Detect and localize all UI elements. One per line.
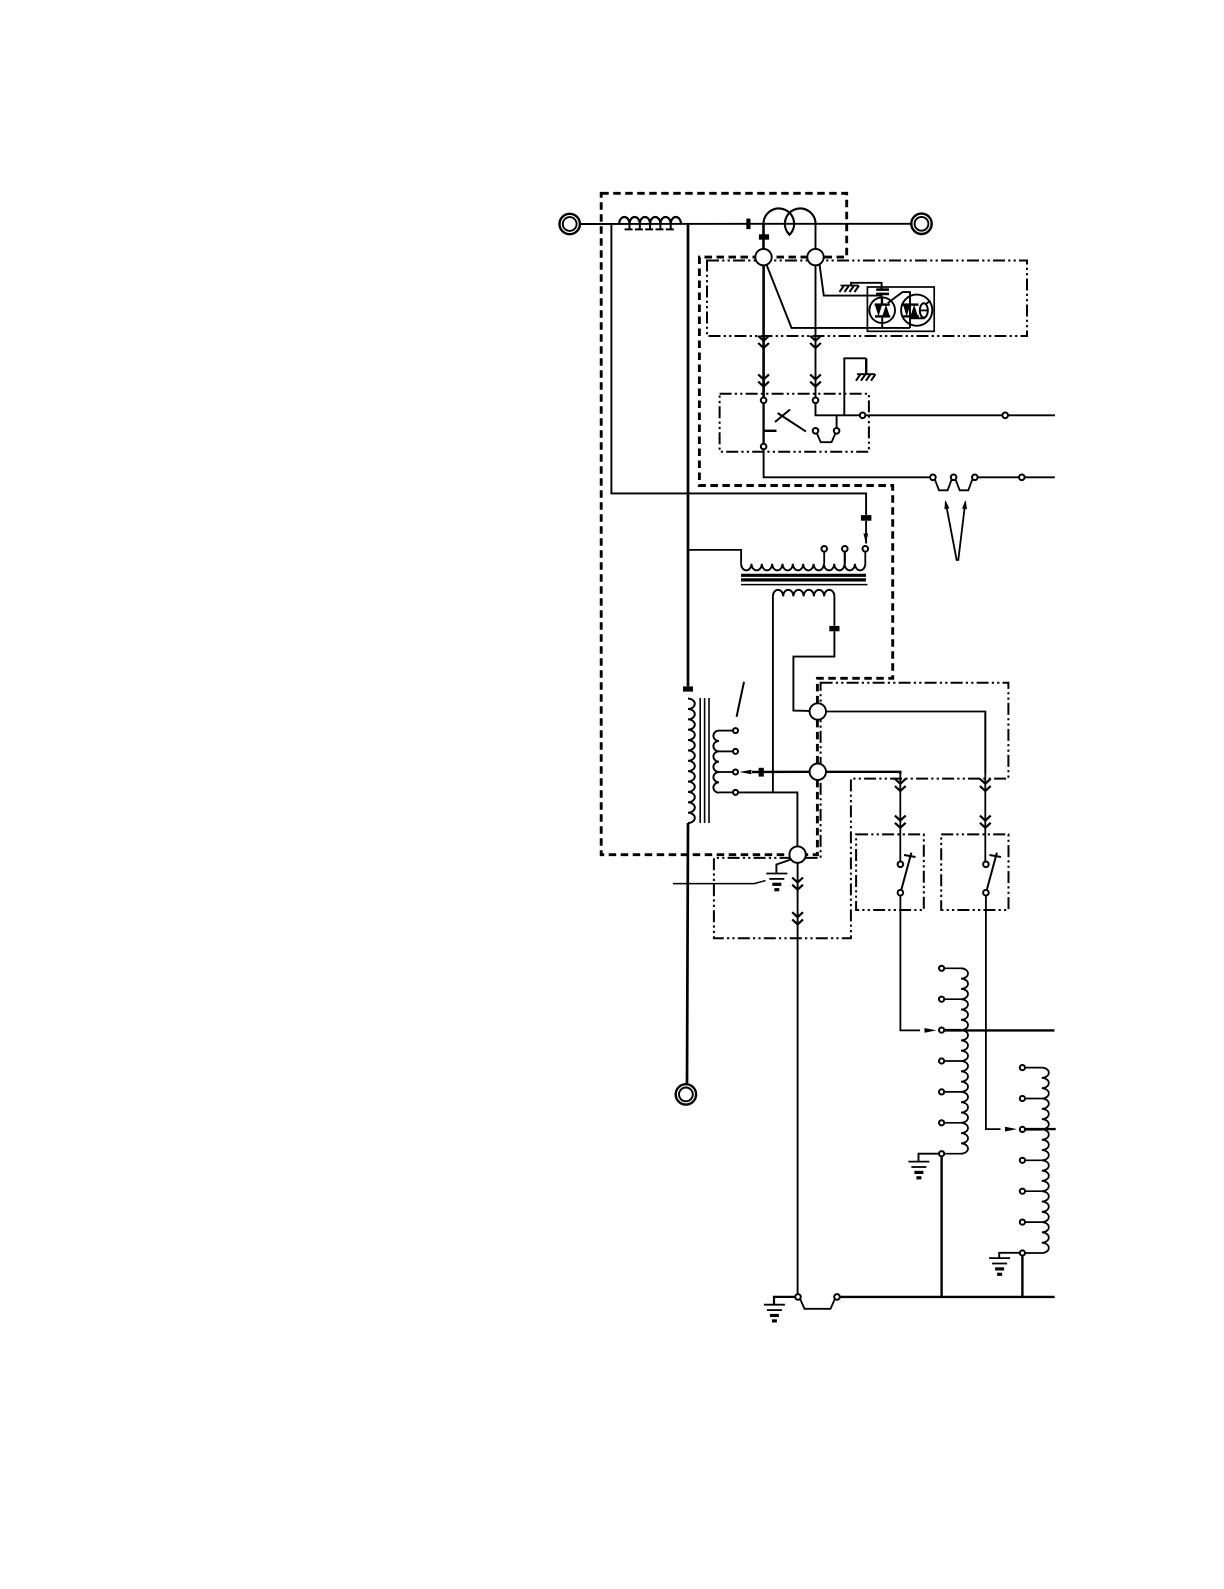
tap stub T2-2 (719, 750, 733, 752)
wire T1 sec right lead (833, 596, 835, 625)
chassis ground G1 (840, 286, 860, 293)
jumper U-link K1 (817, 433, 836, 442)
wire to right end (1025, 476, 1055, 478)
link P1-1/2 (935, 479, 952, 490)
wire S2 entry (984, 834, 986, 861)
tap stub L2-5 (944, 1091, 961, 1093)
contact S1-1 (898, 862, 904, 868)
pin P2-2 (834, 1294, 840, 1300)
tap stub L3-1 (1025, 1067, 1042, 1069)
selector wiper T2 (737, 682, 744, 717)
wire chassis gnd to C1 top (851, 283, 882, 289)
tap T2-3 (733, 770, 738, 775)
mating arrows P1 (944, 500, 967, 561)
enclosure control board B1 (dash-dot) (707, 261, 1027, 337)
switch box S2 (dash-dot) (941, 834, 1008, 910)
arrow S2 to L3 tap (1005, 1127, 1017, 1132)
wire T1 sec left lead (772, 596, 774, 792)
arrow pair S1 drop (b) (895, 816, 906, 828)
link P2 (800, 1299, 835, 1309)
wire S1 exit (900, 896, 920, 1031)
tap stub L3-2 (1025, 1098, 1042, 1100)
tap L2-4 (939, 1058, 944, 1063)
node N2 (807, 249, 823, 265)
terminal TB1 (line input left) (560, 214, 580, 234)
tap L2-6 (939, 1120, 944, 1125)
pin K1-1 (761, 398, 767, 404)
splice S3 on output wire (1002, 413, 1008, 419)
wire Q1-Q2 link (888, 292, 910, 328)
wire CT1 left drop (762, 224, 765, 249)
capacitor C1 (876, 290, 889, 305)
inductor L1 (619, 217, 681, 229)
arrow pair on N2 drop (b) (810, 374, 821, 386)
leader line (673, 881, 766, 884)
tap stub T1-a (823, 552, 825, 564)
tap stub L2-3 (944, 1029, 961, 1031)
tap T1-a (821, 546, 827, 552)
connector J6 (759, 768, 764, 777)
wire N1 to triac return (767, 265, 911, 328)
wire K1 out right (865, 414, 1005, 416)
transformer T2 secondary winding (713, 731, 719, 793)
wire K1 left through (762, 403, 764, 444)
connector J5 (683, 686, 693, 691)
tap L3-6 (1020, 1220, 1025, 1225)
tap stub T2-4 (719, 791, 733, 793)
enclosure output section (dash-dot) (714, 683, 1009, 939)
contact S2-1 (983, 862, 989, 868)
wire CT1 right drop (815, 224, 817, 249)
contact S2-2 (983, 890, 989, 896)
connector J2 (on CT left drop) (759, 234, 769, 239)
transformer T1 primary winding (741, 564, 865, 571)
triac Q2 (with thermal sensor) (901, 295, 932, 326)
wire K1 right net (816, 403, 860, 415)
wire L2 tap3 bus right (944, 1029, 1054, 1031)
switch blade K1 (775, 410, 806, 432)
arrow pair S2 drop (a) (980, 779, 991, 791)
wire N2 to C1 (gate feed) (820, 264, 882, 295)
connector J3 (861, 515, 872, 521)
terminal TB2 (line input right) (911, 214, 931, 234)
pin K1-3 (761, 444, 767, 450)
tap T1-b (842, 546, 848, 552)
tap L2-7 (939, 1151, 944, 1156)
connector J1 (inline on main line) (746, 219, 750, 230)
node N3 (810, 703, 826, 719)
pin P2-1 (795, 1294, 801, 1300)
node N1 (755, 249, 771, 265)
module box U1 (triac assembly) (867, 287, 934, 331)
triac Q1 (869, 297, 895, 327)
wire main line L (580, 223, 748, 225)
tap L3-5 (1020, 1189, 1025, 1194)
wire L3 bottom down (1021, 1256, 1023, 1297)
wire gnd branch up (844, 358, 866, 415)
tap stub T1-c (864, 552, 866, 564)
wire T1 primary feed (688, 550, 741, 564)
wire P1-3 right (978, 476, 1019, 478)
node N4 (810, 764, 826, 780)
current transformer CT1 loops (763, 208, 815, 234)
wire N4 to S1 feed (826, 772, 900, 774)
tap stub L3-5 (1025, 1190, 1042, 1192)
chassis ground G2 (856, 374, 876, 381)
wire P2-1 to earth (774, 1297, 795, 1304)
pin P1-1 (930, 475, 936, 481)
wire Q2 bottom bar (910, 317, 925, 319)
tap stub T2-3 (719, 771, 733, 773)
wire main line R (748, 223, 911, 225)
tap stub L3-6 (1025, 1221, 1042, 1223)
wire T2 tap-4 bus (738, 792, 797, 846)
arrow into T2 tap-3 (739, 770, 751, 774)
arrow pair S2 drop (b) (980, 816, 991, 828)
enclosure main unit (dashed) (601, 193, 893, 854)
tap stub L2-2 (944, 998, 961, 1000)
tap L3-1 (1020, 1065, 1025, 1070)
contact stub K1 (764, 430, 777, 432)
wire J3 to T1 tap (865, 521, 867, 544)
wire L2 bottom down (940, 1157, 942, 1297)
tap stub L3-3 (1025, 1128, 1042, 1130)
tap L3-7 (1020, 1250, 1025, 1255)
tap stub L3-7 (1025, 1252, 1042, 1254)
link P1-2/3 (956, 479, 973, 490)
arrow pair S1 drop (a) (895, 779, 906, 791)
tap T2-2 (733, 749, 738, 754)
tap L2-2 (939, 997, 944, 1002)
tap L3-3 (1020, 1127, 1025, 1132)
tap stub L3-4 (1025, 1159, 1042, 1161)
switch box S1 (dash-dot) (856, 834, 924, 910)
connector J4 (829, 626, 839, 631)
wire K1-3 down and right (764, 449, 931, 477)
tap L2-1 (939, 966, 944, 971)
pin P1-2 (951, 475, 957, 481)
arrow pair on N1 drop (b) (758, 374, 769, 386)
arrow into T1 tap c (863, 534, 868, 544)
transformer T1 core (741, 575, 868, 584)
tap T1-c (863, 546, 869, 552)
transformer T1 secondary winding (773, 590, 835, 597)
wire main bus down (heavy) (687, 224, 690, 686)
pin P1-3 (972, 475, 978, 481)
tap stub L2-7 (944, 1153, 961, 1155)
wire S1 entry (899, 834, 901, 861)
earth ground G3 (766, 874, 787, 890)
node N5 (neutral star) (789, 846, 805, 862)
wire S2 exit (986, 896, 1001, 1130)
wire S1 drop (899, 772, 901, 835)
bus bottom (heavy) (840, 1296, 1055, 1298)
earth ground G4 (908, 1162, 929, 1178)
tap L2-5 (939, 1089, 944, 1094)
earth ground G5 (989, 1258, 1010, 1274)
inductor L2 winding (961, 968, 968, 1153)
wire L3 bottom to earth (999, 1253, 1019, 1258)
wire T2 primary bottom lead (687, 823, 688, 1084)
earth ground G6 (764, 1305, 785, 1321)
arrow pair on N1 drop (a) (758, 336, 769, 348)
wire output right end (1008, 414, 1055, 416)
wire N5 down (to bottom link) (797, 863, 799, 1294)
wire N1 down to relay K1 (762, 265, 765, 400)
wire N3 to S2 feed (826, 712, 985, 775)
contact S1-2 (898, 890, 904, 896)
switch blade S1 (901, 853, 915, 891)
arrow pair N5 drop (a) (792, 878, 803, 890)
transformer T2 core (700, 698, 709, 823)
wire N2 down to relay K1 (815, 265, 817, 400)
arrow S1 to L2 tap (925, 1028, 937, 1033)
tap T2-4 (733, 790, 738, 795)
tap T2-1 (733, 728, 738, 733)
wire T2 tap-3 to N4 (752, 771, 810, 774)
tap stub L2-1 (944, 967, 961, 969)
relay box K1 (dash-dot) (720, 394, 869, 452)
terminal TB3 (output) (676, 1084, 696, 1104)
tap stub T1-b (844, 552, 846, 564)
contact K1-b (834, 428, 840, 434)
tap stub L2-6 (944, 1122, 961, 1124)
pin K1-4 (860, 413, 866, 419)
arrow pair on N2 drop (a) (810, 336, 821, 348)
inductor L3 winding (1042, 1068, 1049, 1253)
tap stub L2-4 (944, 1060, 961, 1062)
arrow pair N5 drop (b) (792, 912, 803, 924)
wire N5 to earth (776, 860, 791, 873)
wire sense line (from main line) (611, 224, 866, 515)
wire L3 tap3 right (1025, 1128, 1056, 1130)
splice S4 (1019, 475, 1025, 481)
wire L2 bottom to earth (919, 1154, 939, 1161)
tap L3-4 (1020, 1158, 1025, 1163)
contact K1-a (813, 428, 819, 434)
switch blade S2 (987, 853, 1001, 891)
tap stub T2-1 (719, 730, 733, 732)
wire S2 drop (984, 712, 986, 835)
wire K1-b up (836, 415, 838, 428)
tap L3-2 (1020, 1096, 1025, 1101)
tap L2-3 (939, 1028, 944, 1033)
pin K1-2 (813, 398, 819, 404)
wire gnd stem (865, 358, 867, 374)
transformer T2 primary winding (688, 699, 695, 823)
wire J4 to node N3 (793, 631, 834, 711)
